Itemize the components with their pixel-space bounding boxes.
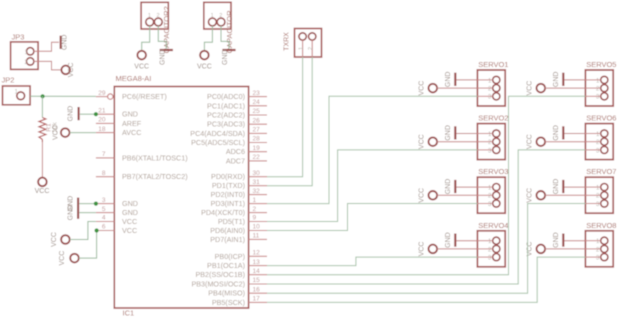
svg-text:22: 22 (253, 154, 261, 161)
connector JP2 (3, 86, 31, 105)
svg-text:30: 30 (253, 170, 261, 177)
wire SERVO3 pin2 to VCC (437, 194, 477, 196)
wire JP3 pin1 to GND (38, 42, 59, 51)
svg-text:21: 21 (98, 107, 106, 114)
wire SERVO7 pin1 to GND (565, 186, 586, 188)
junction node RST branch (41, 94, 45, 98)
IC1 pin 31 PD1(TXD) (right) (249, 185, 267, 187)
power VCC symbol below CAPACITOR (200, 51, 209, 60)
power VCC symbol at IC1 pin 6 (70, 254, 79, 263)
power VCC symbol at SERVO1 (429, 84, 438, 93)
junction at pin 3 (94, 202, 98, 206)
svg-text:PD7(AIN1): PD7(AIN1) (210, 235, 245, 244)
svg-text:10: 10 (253, 224, 261, 231)
svg-text:PD6(AIN0): PD6(AIN0) (210, 226, 245, 235)
svg-text:VCC: VCC (419, 188, 426, 203)
svg-text:ADC6: ADC6 (226, 147, 245, 156)
svg-text:GND: GND (122, 199, 138, 208)
ground symbol at SERVO3 (454, 180, 456, 193)
svg-text:SERVO3: SERVO3 (478, 167, 508, 176)
IC1 pin 1 PD3(INT1) (right) (249, 203, 267, 205)
svg-text:1: 1 (299, 47, 305, 50)
svg-text:VCC: VCC (68, 63, 75, 78)
svg-text:PB2(SS/OC1B): PB2(SS/OC1B) (195, 270, 245, 279)
svg-text:SERVO2: SERVO2 (478, 114, 508, 123)
power VCC symbol at SERVO2 (429, 137, 438, 146)
wire net TXD: TXRX pin2 to IC1 PD1 (267, 57, 312, 186)
IC1 pin 23 PC0(ADC0) (right) (249, 96, 267, 98)
connector TXRX (295, 29, 322, 58)
wire CAPACITOR pin2 to GND (221, 26, 229, 49)
wire R1 bottom to VCC (41, 142, 43, 178)
wire net SERVO2 signal: IC1 PD5 pin9 to SERVO2 pin3 (267, 150, 477, 222)
svg-text:14: 14 (253, 268, 261, 275)
svg-text:12: 12 (253, 250, 261, 257)
svg-text:6: 6 (102, 224, 106, 231)
connector SERVO7 (585, 177, 613, 213)
svg-text:PC0(ADC0): PC0(ADC0) (207, 92, 245, 101)
svg-text:VCC: VCC (527, 134, 534, 149)
wire CAPACITOR2 pin1 to VCC (142, 26, 150, 51)
svg-text:GND: GND (553, 232, 560, 248)
wire VCC to IC1 pin 4 (70, 222, 96, 240)
IC1 pin 29 PC6(/RESET) (left) (96, 96, 107, 98)
wire CAPACITOR pin1 to VCC (204, 26, 212, 51)
svg-text:23: 23 (253, 90, 261, 97)
IC1 pin 26 PC3(ADC3) (right) (249, 123, 267, 125)
power VCC symbol at SERVO8 (537, 245, 546, 254)
svg-text:GND: GND (122, 110, 138, 119)
svg-text:PD5(T1): PD5(T1) (218, 217, 245, 226)
wire net SERVO1 signal: IC1 PD3 pin1 to SERVO1 pin3 (267, 96, 477, 203)
svg-text:19: 19 (253, 145, 261, 152)
wire SERVO4 pin2 to VCC (437, 248, 477, 250)
ground symbol below CAPACITOR (222, 49, 235, 51)
svg-text:1: 1 (253, 197, 257, 204)
IC1 pin 16 PB4(MISO) (right) (249, 292, 267, 294)
power VCC symbol at SERVO4 (429, 245, 438, 254)
ground symbol at SERVO7 (562, 180, 564, 193)
wire CAPACITOR2 pin2 to GND (158, 26, 166, 49)
IC1 pin 11 PD7(AIN1) (right) (249, 238, 267, 240)
svg-text:PB6(XTAL1/TOSC1): PB6(XTAL1/TOSC1) (122, 153, 188, 162)
IC1 pin 24 PC1(ADC1) (right) (249, 105, 267, 107)
svg-text:5: 5 (102, 206, 106, 213)
svg-text:VCC: VCC (122, 217, 137, 226)
svg-text:13: 13 (253, 259, 261, 266)
svg-text:27: 27 (253, 127, 261, 134)
ground symbol at SERVO6 (562, 126, 564, 139)
svg-text:31: 31 (253, 179, 261, 186)
IC1 pin 9 PD5(T1) (right) (249, 221, 267, 223)
svg-text:24: 24 (253, 99, 261, 106)
svg-text:9: 9 (253, 215, 257, 222)
svg-text:GND: GND (445, 72, 452, 88)
wire net SERVO3 signal: IC1 PD6 pin10 to SERVO3 pin3 (267, 204, 477, 231)
JP3 pin2 stub (34, 60, 38, 62)
svg-text:SERVO1: SERVO1 (478, 60, 508, 69)
IC1 pin 5 GND (left) (96, 212, 114, 214)
svg-text:VCC: VCC (527, 188, 534, 203)
svg-text:PC3(ADC3): PC3(ADC3) (207, 120, 245, 129)
ground symbol below CAPACITOR2 (160, 49, 173, 51)
power VCC symbol at SERVO5 (537, 84, 546, 93)
wire JP2 to IC1 RESET pin 29 (net RST) (30, 95, 96, 97)
svg-text:IC1: IC1 (123, 309, 135, 318)
svg-text:17: 17 (253, 296, 261, 303)
junction at pin 21 (94, 112, 98, 116)
svg-text:PC4(ADC4/SDA): PC4(ADC4/SDA) (190, 129, 245, 138)
wire SERVO7 pin2 to VCC (545, 194, 585, 196)
svg-text:7: 7 (102, 151, 106, 158)
svg-text:28: 28 (253, 136, 261, 143)
IC1 pin 3 GND (left) (96, 203, 114, 205)
power VCC symbol below R1 (38, 178, 47, 187)
svg-text:GND: GND (67, 106, 74, 122)
svg-text:1: 1 (211, 13, 214, 19)
svg-text:4: 4 (102, 215, 106, 222)
power VCC symbol at IC1 AVCC pin 18 (61, 128, 70, 137)
IC1 pin 12 PB0(ICP) (right) (249, 255, 267, 257)
svg-text:VCC: VCC (35, 188, 50, 195)
svg-text:GND: GND (222, 49, 229, 65)
IC1 pin 4 VCC (left) (96, 221, 114, 223)
wire net SERVO4 signal: IC1 PB1 pin13 to SERVO4 pin3 (267, 257, 477, 266)
svg-text:VCC: VCC (52, 125, 59, 140)
svg-text:2: 2 (253, 206, 257, 213)
svg-text:VCC: VCC (197, 63, 212, 70)
connector SERVO3 (477, 177, 505, 213)
svg-text:GND: GND (62, 35, 69, 51)
IC1 pin 28 PC5(ADC5/SCL) (right) (249, 142, 267, 144)
connector SERVO8 (585, 231, 613, 267)
capacitor C1 (CAPACITOR) (204, 2, 231, 29)
svg-text:JP2: JP2 (2, 75, 15, 84)
wire JP3 pin2 to VCC (38, 61, 61, 70)
connector SERVO5 (585, 70, 613, 106)
svg-text:32: 32 (253, 188, 261, 195)
power VCC symbol at IC1 pin 4 (61, 235, 70, 244)
svg-text:PC6(/RESET): PC6(/RESET) (122, 92, 167, 101)
ground symbol at SERVO5 (562, 73, 564, 86)
svg-text:VCC: VCC (51, 232, 58, 247)
IC1 pin 30 PD0(RXD) (right) (249, 176, 267, 178)
connector SERVO1 (477, 70, 505, 106)
wire SERVO5 pin1 to GND (565, 79, 586, 81)
svg-text:PD0(RXD): PD0(RXD) (211, 172, 245, 181)
capacitor C2 (CAPACITOR2) (141, 2, 168, 29)
svg-text:VCC: VCC (419, 81, 426, 96)
wire net SERVO5 signal: IC1 PB2 pin14 to SERVO5 pin3 (267, 96, 585, 274)
svg-text:11: 11 (253, 233, 260, 240)
wire GND symbol to IC1 pin 21 (80, 113, 96, 115)
svg-text:GND: GND (445, 125, 452, 141)
connector SERVO4 (477, 231, 505, 267)
wire VCC symbol to IC1 pin 18 AVCC (70, 132, 96, 134)
svg-text:8: 8 (102, 170, 106, 177)
svg-text:PB5(SCK): PB5(SCK) (212, 298, 245, 307)
svg-text:VCC: VCC (122, 226, 137, 235)
IC1 pin 32 PD2(INT0) (right) (249, 194, 267, 196)
IC1 pin 14 PB2(SS/OC1B) (right) (249, 274, 267, 276)
svg-text:SERVO6: SERVO6 (586, 114, 616, 123)
wire VCC to IC1 pin 6 (79, 231, 97, 259)
ground symbol at IC1 pin 21 (78, 107, 80, 120)
svg-text:PC1(ADC1): PC1(ADC1) (207, 101, 245, 110)
svg-text:GND: GND (445, 232, 452, 248)
wire RST branch down to R1 (41, 96, 43, 117)
svg-text:PB3(MOSI/OC2): PB3(MOSI/OC2) (191, 280, 245, 289)
ground symbol at SERVO8 (562, 234, 564, 247)
power VCC symbol below CAPACITOR2 (137, 51, 146, 60)
connector SERVO6 (585, 124, 613, 160)
IC1 pin 19 ADC6 (right) (249, 151, 267, 153)
svg-text:PD1(TXD): PD1(TXD) (212, 181, 245, 190)
IC1 pin 10 PD6(AIN0) (right) (249, 230, 267, 232)
svg-text:16: 16 (253, 286, 261, 293)
ground symbol at SERVO2 (454, 126, 456, 139)
IC1 pin 25 PC2(ADC2) (right) (249, 114, 267, 116)
power VCC symbol at SERVO3 (429, 191, 438, 200)
connector JP3 (11, 42, 38, 70)
svg-text:GND: GND (68, 205, 75, 221)
wire SERVO6 pin2 to VCC (545, 141, 585, 143)
wire SERVO3 pin1 to GND (457, 186, 478, 188)
IC1 pin 18 AVCC (left) (96, 132, 114, 134)
ground symbol at JP3 (60, 36, 62, 49)
IC1 pin 7 PB6(XTAL1/TOSC1) (left) (96, 157, 114, 159)
svg-text:2: 2 (157, 13, 160, 19)
svg-text:26: 26 (253, 117, 261, 124)
wire SERVO6 pin1 to GND (565, 133, 586, 135)
svg-text:PC2(ADC2): PC2(ADC2) (207, 111, 245, 120)
svg-text:VCC: VCC (134, 63, 149, 70)
svg-text:PB7(XTAL2/TOSC2): PB7(XTAL2/TOSC2) (122, 172, 188, 181)
IC1 pin 22 ADC7 (right) (249, 160, 267, 162)
svg-text:25: 25 (253, 108, 261, 115)
wire net SERVO7 signal: IC1 PB4 pin16 to SERVO7 pin3 (267, 204, 585, 294)
JP3 pin1 stub (34, 50, 38, 52)
svg-text:SERVO7: SERVO7 (586, 167, 616, 176)
svg-text:GND: GND (553, 72, 560, 88)
wire SERVO2 pin1 to GND (457, 133, 478, 135)
wire SERVO5 pin2 to VCC (545, 87, 585, 89)
wire SERVO8 pin1 to GND (565, 240, 586, 242)
IC1 pin 6 VCC (left) (96, 230, 114, 232)
ground symbols (two stacked) at IC1 pins 3,5 (77, 198, 79, 219)
junction at pin 6 (95, 228, 99, 232)
svg-text:SERVO5: SERVO5 (586, 60, 616, 69)
svg-text:1: 1 (148, 13, 151, 19)
svg-text:2: 2 (308, 47, 314, 50)
wire GND to IC1 pin 3 (79, 203, 96, 205)
svg-text:PB0(ICP): PB0(ICP) (215, 252, 245, 261)
wire SERVO4 pin1 to GND (457, 240, 478, 242)
svg-text:VCC: VCC (419, 242, 426, 257)
svg-text:GND: GND (445, 179, 452, 195)
IC1 pin 17 PB5(SCK) (right) (249, 301, 267, 303)
svg-text:AVCC: AVCC (122, 128, 141, 137)
IC1 pin 20 AREF (left) (96, 122, 114, 124)
power VCC symbol at SERVO7 (537, 191, 546, 200)
svg-text:15: 15 (253, 277, 261, 284)
svg-text:PB4(MISO): PB4(MISO) (208, 289, 245, 298)
svg-text:GND: GND (553, 179, 560, 195)
ground symbol at SERVO4 (454, 234, 456, 247)
svg-text:PD3(INT1): PD3(INT1) (211, 199, 245, 208)
wire SERVO8 pin2 to VCC (545, 248, 585, 250)
svg-text:TXRX: TXRX (283, 32, 290, 51)
svg-text:3: 3 (102, 197, 106, 204)
svg-text:PB1(OC1A): PB1(OC1A) (207, 261, 245, 270)
svg-text:GND: GND (159, 49, 166, 65)
svg-text:PD4(XCK/T0): PD4(XCK/T0) (201, 208, 245, 217)
IC1 pin 8 PB7(XTAL2/TOSC2) (left) (96, 176, 114, 178)
svg-text:VCC: VCC (419, 134, 426, 149)
ground symbol at SERVO1 (454, 73, 456, 86)
connector SERVO2 (477, 124, 505, 160)
svg-text:SERVO4: SERVO4 (478, 221, 508, 230)
svg-text:2: 2 (219, 13, 222, 19)
resistor R1 10k (39, 118, 46, 140)
svg-text:18: 18 (98, 126, 106, 133)
wire net RXD: TXRX pin1 to IC1 PD0 (267, 57, 303, 177)
svg-text:PD2(INT0): PD2(INT0) (211, 190, 245, 199)
TXRX pin stubs (302, 40, 304, 57)
wire net SERVO6 signal: IC1 PB3 pin15 to SERVO6 pin3 (267, 150, 585, 284)
svg-text:JP3: JP3 (12, 33, 25, 42)
op IC1 MEGA8-AI microcontroller body (114, 87, 248, 309)
svg-text:VCC: VCC (59, 251, 66, 266)
IC1 pin 15 PB3(MOSI/OC2) (right) (249, 283, 267, 285)
svg-text:29: 29 (98, 90, 106, 97)
wire SERVO2 pin2 to VCC (437, 141, 477, 143)
svg-text:SERVO8: SERVO8 (586, 221, 616, 230)
IC1 pin 21 GND (left) (96, 113, 114, 115)
svg-text:ADC7: ADC7 (226, 156, 245, 165)
wire net SERVO8 signal: IC1 PB5 pin17 to SERVO8 pin3 (267, 257, 585, 302)
svg-text:MEGA8-AI: MEGA8-AI (116, 74, 152, 83)
svg-text:GND: GND (553, 125, 560, 141)
svg-text:AREF: AREF (122, 119, 142, 128)
wire GND to IC1 pin 5 (79, 212, 96, 214)
svg-text:VCC: VCC (527, 81, 534, 96)
wire SERVO1 pin2 to VCC (437, 87, 477, 89)
svg-text:20: 20 (98, 117, 106, 124)
IC1 pin 27 PC4(ADC4/SDA) (right) (249, 132, 267, 134)
svg-text:GND: GND (122, 208, 138, 217)
IC1 pin 2 PD4(XCK/T0) (right) (249, 212, 267, 214)
IC1 pin 13 PB1(OC1A) (right) (249, 265, 267, 267)
power VCC symbol at SERVO6 (537, 137, 546, 146)
svg-text:PC5(ADC5/SCL): PC5(ADC5/SCL) (191, 138, 245, 147)
wire SERVO1 pin1 to GND (457, 79, 478, 81)
power VCC symbol at JP3 (61, 66, 70, 75)
